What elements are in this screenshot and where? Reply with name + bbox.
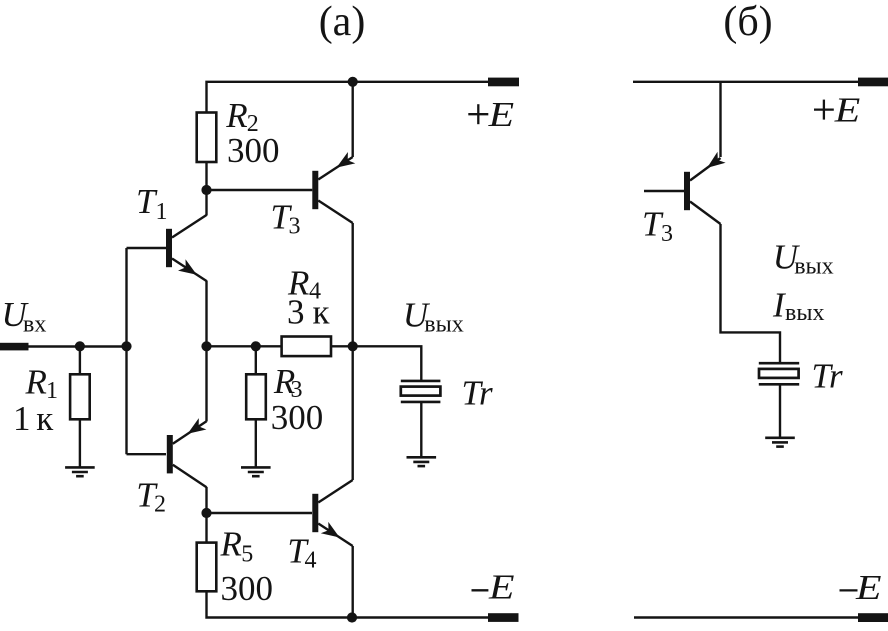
svg-text:(а): (а)	[319, 0, 366, 45]
wire T3b base stub	[644, 190, 684, 192]
wire -E bottom rail (a) with corner up to R5	[207, 591, 489, 617]
svg-text:к: к	[313, 292, 331, 331]
wire T4 emitter vertical to rail	[352, 546, 354, 618]
node dot -E rail	[347, 612, 357, 622]
svg-text:3: 3	[287, 292, 305, 331]
ground below R3	[241, 466, 271, 469]
terminal U_vx input	[0, 343, 29, 351]
svg-text:Е: Е	[855, 568, 882, 607]
wire emitter node to R4	[207, 345, 282, 347]
wire T3 emitter vertical to rail	[352, 82, 354, 157]
svg-text:Tr: Tr	[812, 357, 844, 396]
terminal -E (b)	[858, 613, 888, 622]
transistor T3 (b)	[684, 172, 690, 210]
svg-text:вх: вх	[23, 312, 46, 338]
wire R1 top	[79, 346, 81, 374]
wire R2 bottom to node	[205, 162, 207, 190]
node dot emitters	[201, 341, 211, 351]
label -E (b)	[840, 589, 858, 591]
node dot +E rail	[348, 77, 358, 87]
svg-text:Tr: Tr	[462, 374, 494, 413]
svg-text:вых: вых	[424, 311, 463, 337]
node dot R1 tap	[75, 341, 85, 351]
node dot R2/T1/T3	[201, 185, 211, 195]
wire R3 bottom	[255, 419, 257, 467]
transistor T1	[166, 229, 172, 267]
svg-text:R: R	[220, 524, 242, 563]
resistor R3	[246, 374, 266, 419]
resistor R4	[282, 337, 331, 357]
node dot base net	[121, 341, 131, 351]
svg-text:3: 3	[289, 214, 301, 240]
wire R5 top	[205, 513, 207, 543]
svg-text:4: 4	[305, 548, 317, 574]
svg-text:R: R	[225, 96, 247, 135]
wire -E bottom rail (b)	[634, 616, 859, 618]
wire T1 base stub	[127, 247, 167, 249]
svg-text:к: к	[36, 399, 54, 438]
transistor T2	[167, 435, 173, 473]
svg-text:300: 300	[271, 398, 324, 437]
wire node to T4 base	[207, 512, 313, 514]
resistor R5	[197, 543, 217, 592]
wire +E top rail (b)	[633, 81, 859, 83]
wire input to base node	[29, 345, 128, 347]
wire base net vertical T1-T2	[125, 248, 127, 454]
wire Tr bottom (a)	[420, 402, 422, 457]
svg-text:Е: Е	[834, 90, 861, 129]
svg-text:Е: Е	[488, 568, 515, 607]
wire T1 collector vertical	[205, 190, 207, 216]
svg-text:(б): (б)	[723, 0, 772, 45]
wire node to T3 base	[207, 189, 313, 191]
wire R4 to output node	[331, 345, 353, 347]
terminal +E (b)	[858, 78, 888, 87]
wire Tr bottom (b)	[779, 384, 781, 438]
wire R1 bottom	[79, 419, 81, 467]
svg-text:вых: вых	[785, 300, 824, 326]
wire T2 collector vertical	[205, 487, 207, 513]
wire R3 top	[255, 346, 257, 374]
wire T4 collector vertical to output	[352, 346, 354, 480]
svg-text:5: 5	[241, 542, 253, 568]
svg-text:2: 2	[154, 491, 166, 517]
svg-text:300: 300	[227, 131, 280, 170]
wire T3b emitter drop from rail	[719, 82, 721, 157]
svg-text:1: 1	[13, 399, 31, 438]
svg-text:R: R	[25, 362, 47, 401]
transistor T3 (a)	[312, 171, 318, 209]
wire output node to Tr	[353, 346, 422, 381]
wire T2 base stub	[127, 453, 167, 455]
node dot R3 tap	[251, 341, 261, 351]
node dot T2 collector	[201, 508, 211, 518]
wire T1 emitter vertical	[205, 281, 207, 347]
ground below Tr (b)	[765, 436, 795, 439]
svg-text:Е: Е	[487, 95, 514, 134]
label +E (b)	[814, 108, 834, 110]
resistor R1	[70, 374, 90, 419]
svg-text:3: 3	[661, 221, 673, 247]
ground below R1	[65, 466, 95, 469]
wire T2 emitter vertical	[205, 346, 207, 421]
transducer Tr (a)	[401, 380, 441, 383]
svg-text:1: 1	[156, 199, 168, 225]
wire +E top rail (a) with corner down to R2	[207, 82, 489, 113]
label -E (a)	[472, 589, 489, 591]
terminal +E (a)	[488, 78, 519, 87]
resistor R2	[197, 113, 217, 163]
terminal -E (a)	[488, 613, 519, 622]
transistor T4	[312, 494, 318, 532]
svg-text:вых: вых	[794, 254, 833, 280]
svg-text:300: 300	[221, 569, 274, 608]
label +E (a)	[468, 113, 488, 115]
wire T3b collector down with jog to Tr	[721, 224, 781, 363]
transducer Tr (b)	[759, 362, 799, 365]
ground below Tr (a)	[407, 456, 437, 459]
node dot output	[348, 341, 358, 351]
wire T3 collector vertical to output	[352, 223, 354, 346]
